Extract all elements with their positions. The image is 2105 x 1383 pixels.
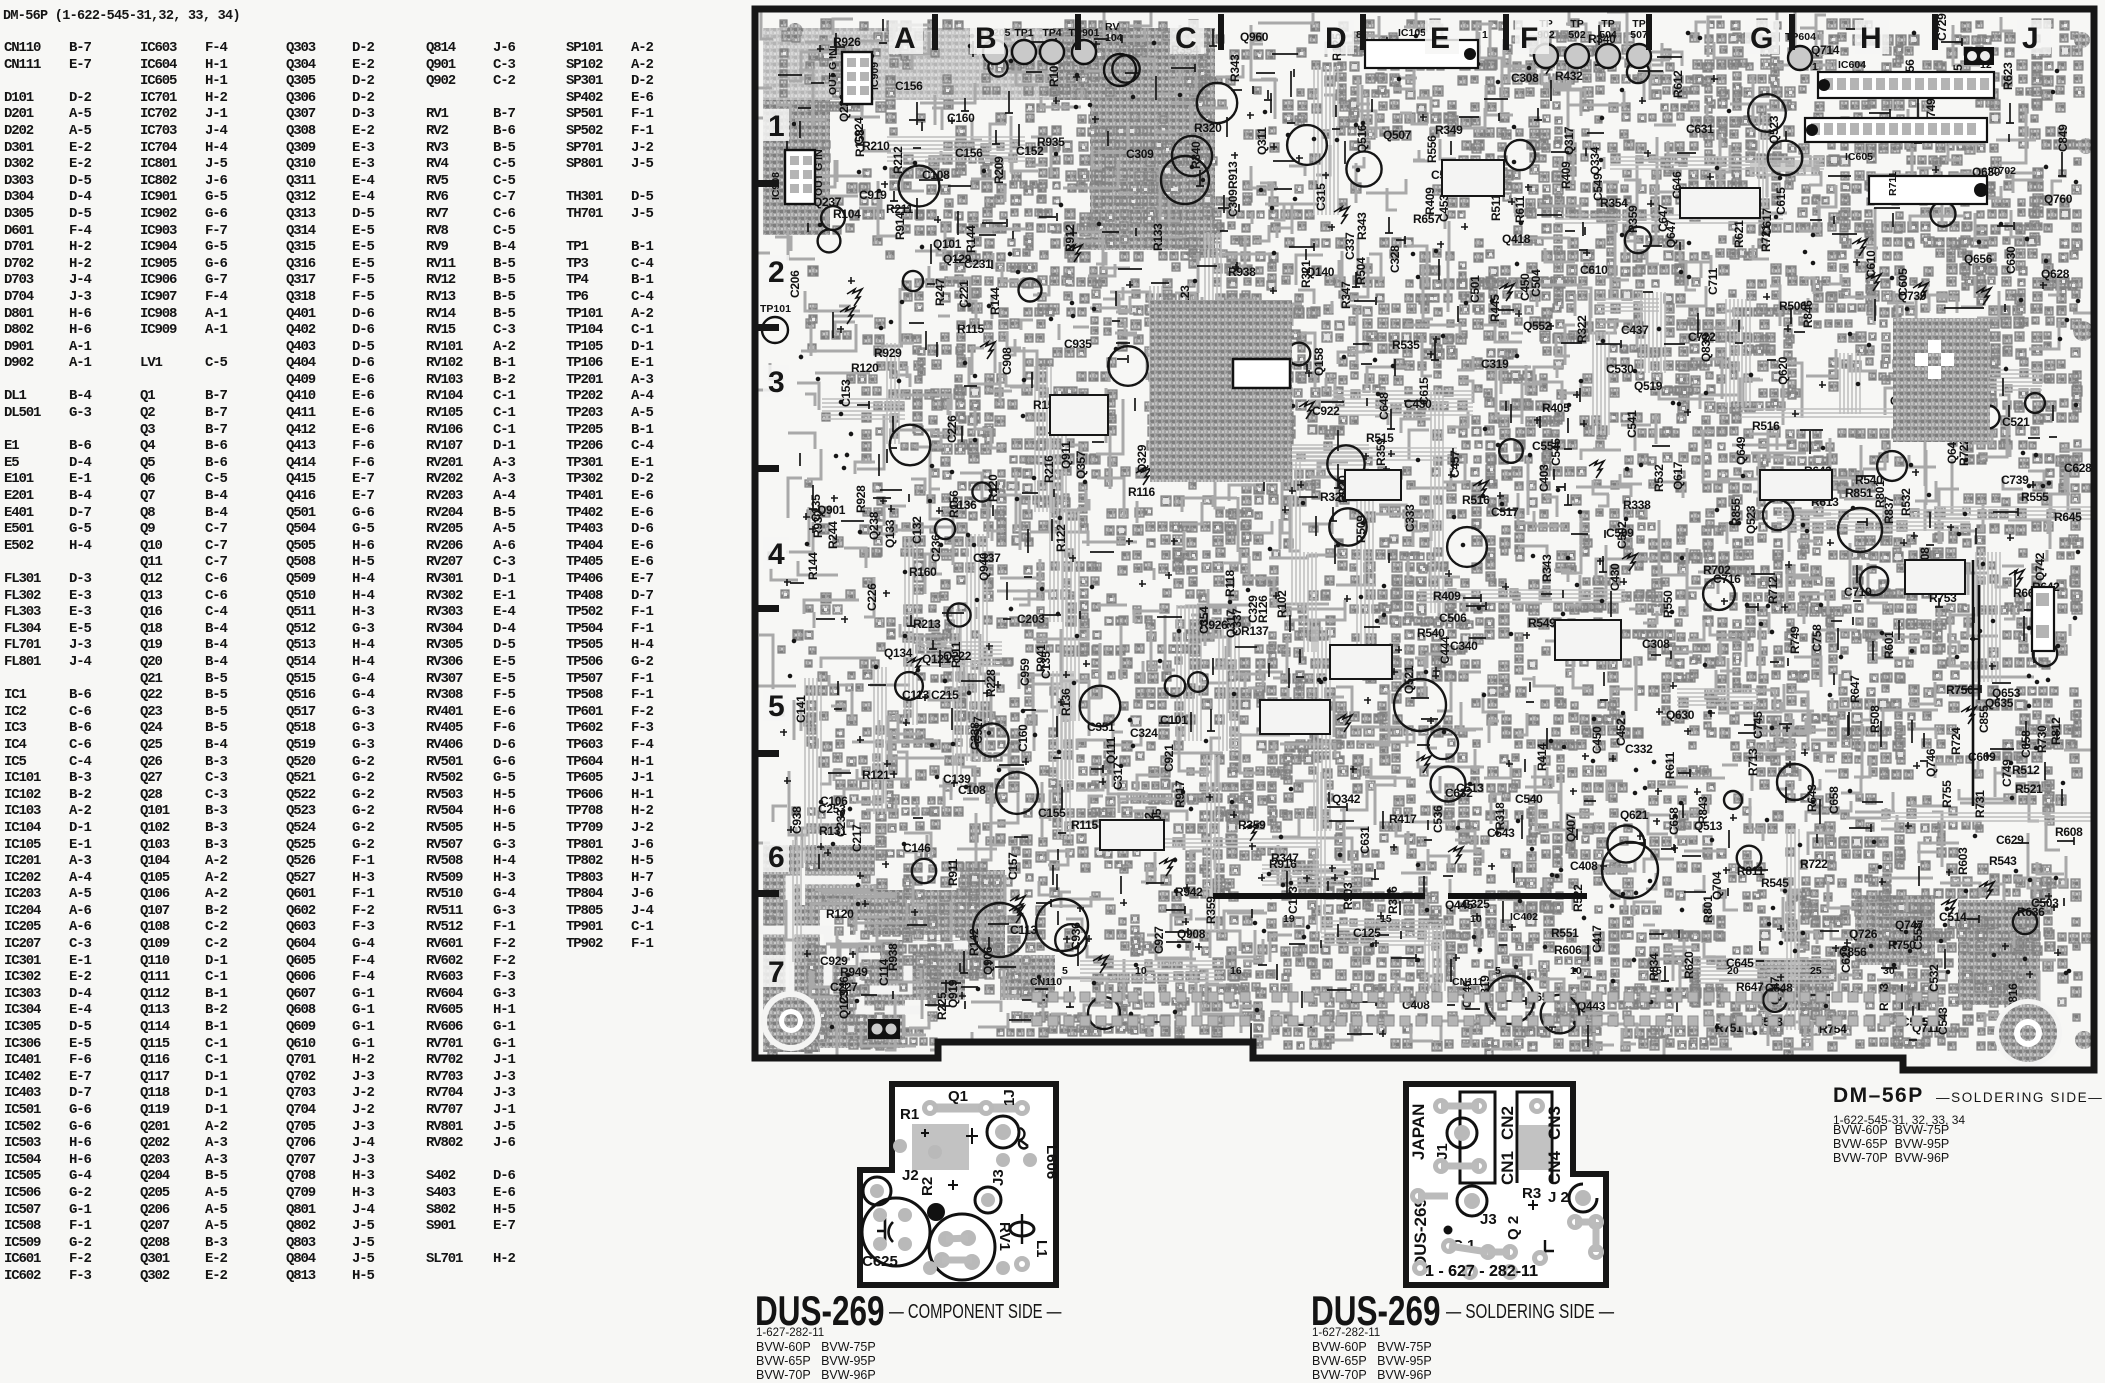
- grid label H: [1855, 20, 1889, 54]
- svg-text:C517: C517: [1491, 505, 1519, 519]
- component index column 2: designators: [140, 40, 176, 1285]
- svg-text:502: 502: [1568, 29, 1586, 41]
- transistor Q1 circle: [987, 1116, 1019, 1148]
- svg-text:R749: R749: [1788, 626, 1802, 654]
- svg-text:TP4: TP4: [1042, 27, 1061, 39]
- svg-text:R543: R543: [1989, 854, 2017, 868]
- svg-text:C855: C855: [1977, 705, 1991, 733]
- svg-text:Q906: Q906: [981, 946, 995, 975]
- potentiometer RV1: [929, 1214, 995, 1280]
- svg-text:R750: R750: [1888, 938, 1916, 952]
- svg-text:Q649: Q649: [1734, 436, 1748, 465]
- J3: [975, 1187, 1001, 1213]
- TP901: [1072, 40, 1096, 64]
- svg-text:R133: R133: [1151, 223, 1165, 251]
- svg-text:Q714: Q714: [1811, 43, 1840, 57]
- svg-text:Q133: Q133: [883, 519, 897, 548]
- svg-text:R121: R121: [862, 768, 890, 782]
- svg-text:R338: R338: [1623, 498, 1651, 512]
- TP504: [1596, 44, 1620, 68]
- svg-text:IC604: IC604: [1838, 59, 1866, 71]
- svg-text:B: B: [975, 22, 997, 55]
- svg-text:25: 25: [1810, 965, 1822, 977]
- svg-text:C132: C132: [910, 516, 924, 544]
- header part number: [3, 9, 240, 24]
- svg-text:R156: R156: [947, 490, 961, 518]
- svg-text:R636: R636: [2017, 905, 2045, 919]
- bottom-left connector: [868, 1019, 900, 1039]
- grid label E: [1425, 20, 1459, 54]
- svg-text:D: D: [1325, 22, 1347, 55]
- svg-text:R730: R730: [2035, 725, 2049, 753]
- svg-text:C628: C628: [2064, 461, 2092, 475]
- svg-text:C632: C632: [1445, 786, 1473, 800]
- svg-text:Q158: Q158: [1312, 347, 1326, 376]
- svg-text:4: 4: [768, 538, 785, 571]
- svg-text:C457: C457: [1448, 450, 1462, 478]
- svg-text:C137: C137: [973, 551, 1001, 565]
- svg-text:R120: R120: [826, 907, 854, 921]
- svg-text:C135: C135: [1039, 651, 1053, 679]
- svg-text:C333: C333: [1403, 504, 1417, 532]
- svg-text:10: 10: [1135, 965, 1147, 977]
- svg-text:C: C: [1175, 22, 1197, 55]
- svg-text:C631: C631: [1358, 826, 1372, 854]
- svg-text:R801: R801: [1701, 895, 1715, 923]
- IC702: [1869, 176, 1987, 204]
- IC105: [1365, 40, 1478, 68]
- svg-text:R722: R722: [1957, 438, 1971, 466]
- svg-text:R535: R535: [1392, 338, 1420, 352]
- svg-text:C615: C615: [1774, 187, 1788, 215]
- svg-text:R359: R359: [1238, 818, 1266, 832]
- svg-text:R120: R120: [986, 474, 1000, 502]
- svg-text:C408: C408: [1570, 859, 1598, 873]
- svg-text:C502: C502: [1615, 521, 1629, 549]
- svg-text:Q134: Q134: [884, 646, 913, 660]
- svg-text:R347: R347: [1339, 281, 1353, 309]
- svg-text:R359: R359: [1626, 205, 1640, 233]
- svg-text:R343: R343: [1228, 54, 1242, 82]
- svg-text:Q552: Q552: [1523, 319, 1552, 333]
- svg-text:C629: C629: [1839, 945, 1853, 973]
- svg-text:R949: R949: [840, 965, 868, 979]
- svg-text:R657: R657: [1413, 212, 1441, 226]
- svg-text:R928: R928: [854, 485, 868, 513]
- big gray plane near J (H4-J4): [1893, 318, 1990, 442]
- svg-text:IC909: IC909: [869, 62, 881, 90]
- svg-text:C532: C532: [1927, 964, 1941, 992]
- svg-text:6: 6: [768, 841, 785, 874]
- J2: [863, 1177, 891, 1205]
- svg-text:C160: C160: [947, 111, 975, 125]
- ground patch bottom-right: [1958, 900, 2040, 1005]
- grid label 5: [763, 689, 789, 721]
- grid label 3: [763, 365, 789, 397]
- ground plane patch upper-left: [763, 28, 1053, 100]
- svg-text:R122: R122: [1054, 524, 1068, 552]
- grid label 4: [763, 537, 789, 569]
- svg-text:OUT G IN: OUT G IN: [813, 149, 825, 196]
- svg-text:C924: C924: [852, 117, 866, 145]
- jumper Q1 trace: [930, 1104, 1022, 1113]
- svg-text:CN3: CN3: [1545, 1106, 1564, 1140]
- svg-text:C319: C319: [1481, 357, 1509, 371]
- svg-text:R620: R620: [1682, 951, 1696, 979]
- TP4: [1040, 40, 1064, 64]
- svg-text:R713: R713: [1746, 748, 1760, 776]
- svg-text:Q747: Q747: [1895, 918, 1924, 932]
- svg-text:10: 10: [1470, 913, 1482, 925]
- TP1: [1012, 40, 1036, 64]
- component index column 3: grid coordinates: [352, 40, 374, 1285]
- mounting holes: [761, 991, 821, 1051]
- svg-text:Q342: Q342: [1332, 792, 1361, 806]
- solder pad field: [764, 19, 2092, 1059]
- svg-text:R104: R104: [833, 207, 861, 221]
- svg-text:R603: R603: [1956, 847, 1970, 875]
- svg-text:Q621: Q621: [1620, 808, 1649, 822]
- svg-text:C153: C153: [839, 379, 853, 407]
- svg-text:R724: R724: [1949, 727, 1963, 755]
- pad rings: [770, 33, 2079, 1055]
- svg-text:R144: R144: [964, 225, 978, 253]
- svg-text:R612: R612: [1671, 70, 1685, 98]
- svg-text:R938: R938: [1228, 265, 1256, 279]
- svg-text:J 2: J 2: [1548, 1189, 1569, 1206]
- svg-text:R549: R549: [1528, 616, 1556, 630]
- svg-text:Q311: Q311: [1255, 127, 1269, 155]
- svg-text:R509: R509: [1354, 515, 1368, 543]
- svg-text:G: G: [1750, 22, 1773, 55]
- svg-text:C139: C139: [943, 772, 971, 786]
- svg-text:C125: C125: [1353, 926, 1381, 940]
- svg-text:R711: R711: [1887, 171, 1899, 196]
- svg-text:E: E: [1430, 22, 1450, 55]
- svg-text:C309: C309: [1226, 189, 1240, 217]
- svg-text:R608: R608: [2055, 825, 2083, 839]
- svg-text:15: 15: [1650, 965, 1662, 977]
- svg-text:R211: R211: [886, 202, 913, 216]
- svg-text:C917: C917: [971, 716, 985, 744]
- component reference labels: [788, 13, 2092, 1036]
- svg-text:Q121: Q121: [922, 652, 951, 666]
- svg-text:TP101: TP101: [760, 303, 791, 315]
- svg-text:10: 10: [1570, 965, 1582, 977]
- svg-text:R2: R2: [919, 1177, 936, 1196]
- svg-text:Q620: Q620: [1776, 356, 1790, 385]
- svg-text:CN110: CN110: [1030, 976, 1062, 988]
- svg-text:C935: C935: [1064, 337, 1092, 351]
- svg-text:R359: R359: [1374, 438, 1388, 466]
- svg-text:R359: R359: [1204, 896, 1218, 924]
- component index column 5: grid coordinates: [631, 40, 653, 1285]
- svg-text:C919: C919: [859, 188, 887, 202]
- svg-text:C959: C959: [1018, 658, 1032, 686]
- svg-text:504: 504: [1599, 29, 1617, 41]
- svg-text:C739: C739: [2001, 473, 2029, 487]
- svg-text:C308: C308: [1511, 71, 1539, 85]
- FL801: [2032, 587, 2054, 651]
- svg-text:Q516: Q516: [1355, 124, 1369, 153]
- svg-text:R343: R343: [1540, 554, 1554, 582]
- svg-text:R216: R216: [1042, 455, 1056, 483]
- via/junction dots: [788, 31, 2081, 1039]
- svg-text:C317: C317: [1111, 762, 1125, 790]
- svg-text:IC702: IC702: [1988, 165, 2016, 177]
- svg-text:C629: C629: [1996, 833, 2024, 847]
- component index column 3: designators: [286, 40, 315, 1285]
- svg-text:C221: C221: [957, 280, 971, 308]
- svg-text:C540: C540: [1515, 792, 1543, 806]
- svg-text:J1: J1: [1434, 1143, 1451, 1160]
- svg-text:Q418: Q418: [1502, 232, 1531, 246]
- board outline: [755, 9, 2094, 1070]
- component index column 4: grid coordinates: [493, 40, 515, 1285]
- RV104: [1104, 54, 1136, 86]
- svg-text:C615: C615: [1417, 377, 1431, 405]
- svg-text:16: 16: [1230, 965, 1242, 977]
- svg-text:C329: C329: [1246, 595, 1260, 623]
- svg-text:R516: R516: [1462, 493, 1490, 507]
- svg-text:Q919: Q919: [946, 979, 960, 1008]
- svg-text:R929: R929: [874, 346, 902, 360]
- svg-text:C437: C437: [1621, 323, 1649, 337]
- svg-text:Q628: Q628: [2041, 267, 2070, 281]
- svg-text:C217: C217: [850, 824, 864, 852]
- svg-text:R322: R322: [1575, 315, 1589, 343]
- svg-text:Q519: Q519: [1634, 379, 1663, 393]
- grid label 2: [763, 255, 789, 287]
- svg-text:C430: C430: [1608, 563, 1622, 591]
- svg-text:R320: R320: [1194, 121, 1222, 135]
- svg-text:R540: R540: [1417, 626, 1445, 640]
- svg-text:R144: R144: [806, 552, 820, 580]
- svg-text:R508: R508: [1868, 705, 1882, 733]
- svg-text:R209: R209: [992, 156, 1006, 184]
- svg-text:C849: C849: [2056, 124, 2070, 152]
- svg-text:Q123: Q123: [837, 990, 851, 1019]
- svg-text:R3: R3: [1522, 1185, 1541, 1202]
- svg-text:C146: C146: [903, 841, 931, 855]
- TP604: [1788, 46, 1812, 70]
- svg-text:Q407: Q407: [1564, 813, 1578, 842]
- svg-text:R601: R601: [1882, 631, 1896, 659]
- svg-text:R935: R935: [1037, 135, 1065, 149]
- svg-text:R160: R160: [909, 565, 937, 579]
- svg-text:C610: C610: [1580, 263, 1608, 277]
- svg-text:C155: C155: [1038, 806, 1066, 820]
- svg-text:R228: R228: [984, 669, 998, 697]
- svg-text:Q742: Q742: [2033, 552, 2047, 581]
- svg-text:C108: C108: [922, 168, 950, 182]
- svg-text:Q630: Q630: [1666, 708, 1695, 722]
- svg-text:CN1: CN1: [1498, 1151, 1517, 1185]
- capacitor C1: [1444, 1226, 1453, 1235]
- grid label 1: [763, 109, 789, 141]
- IC909 box: [842, 52, 872, 104]
- svg-text:Q317: Q317: [1562, 126, 1576, 155]
- svg-text:1: 1: [1812, 61, 1818, 73]
- svg-text:C514: C514: [1939, 910, 1967, 924]
- svg-text:IC402: IC402: [1510, 911, 1538, 923]
- svg-text:C337: C337: [1343, 232, 1357, 260]
- svg-text:C521: C521: [2002, 415, 2030, 429]
- svg-text:R512: R512: [2012, 763, 2040, 777]
- svg-text:Q908: Q908: [1177, 927, 1206, 941]
- svg-text:R343: R343: [1355, 212, 1369, 240]
- svg-text:R213: R213: [913, 617, 941, 631]
- svg-text:C908: C908: [1000, 347, 1014, 375]
- component index column 2: grid coordinates: [205, 40, 227, 1285]
- svg-text:Q357: Q357: [1074, 450, 1088, 479]
- svg-text:C103: C103: [1286, 886, 1300, 914]
- svg-text:R432: R432: [1555, 69, 1583, 83]
- svg-text:C647: C647: [1656, 204, 1670, 232]
- svg-text:7: 7: [768, 956, 785, 989]
- svg-text:R545: R545: [1761, 876, 1789, 890]
- svg-text:C605: C605: [1896, 268, 1910, 296]
- svg-text:R621: R621: [1732, 220, 1746, 248]
- svg-text:R118: R118: [1223, 570, 1237, 597]
- svg-text:R414: R414: [1535, 743, 1549, 771]
- svg-text:C226: C226: [945, 415, 959, 443]
- svg-text:Q317: Q317: [1224, 609, 1238, 638]
- svg-text:Q513: Q513: [1694, 819, 1723, 833]
- svg-text:C711: C711: [1706, 268, 1720, 295]
- svg-text:5: 5: [768, 690, 785, 723]
- svg-text:R550: R550: [1661, 590, 1675, 618]
- trimmer wiper marks: [840, 57, 2024, 973]
- IC605 strip: [1805, 118, 1987, 142]
- svg-text:Q101: Q101: [933, 237, 962, 251]
- svg-text:Q1: Q1: [948, 1088, 968, 1105]
- svg-text:J2: J2: [902, 1167, 919, 1184]
- svg-text:2: 2: [768, 256, 785, 289]
- svg-text:L1: L1: [1033, 1240, 1050, 1258]
- svg-text:R326: R326: [1320, 490, 1348, 504]
- svg-text:R721: R721: [1759, 224, 1773, 252]
- IC908 box: [785, 150, 815, 204]
- svg-text:C536: C536: [1431, 805, 1445, 833]
- svg-text:R556: R556: [1425, 135, 1439, 163]
- svg-text:C501: C501: [1468, 275, 1482, 303]
- svg-text:DUS-269: DUS-269: [1411, 1198, 1430, 1268]
- svg-text:C631: C631: [1686, 122, 1714, 136]
- svg-text:R755: R755: [1940, 780, 1954, 808]
- svg-text:5: 5: [1062, 965, 1068, 977]
- svg-text:R142: R142: [967, 928, 981, 956]
- TP205: [983, 40, 1007, 64]
- svg-text:C227: C227: [830, 980, 858, 994]
- svg-text:Q445: Q445: [1445, 898, 1474, 912]
- svg-text:C156: C156: [895, 79, 923, 93]
- white component boxes: [1330, 645, 1392, 679]
- svg-text:OUT G IN: OUT G IN: [827, 48, 839, 95]
- CN1 connector outline: [1460, 1092, 1495, 1183]
- svg-text:C554: C554: [1532, 439, 1560, 453]
- grid label G: [1745, 20, 1779, 54]
- svg-text:R506: R506: [1779, 299, 1807, 313]
- svg-text:C113: C113: [1010, 923, 1037, 937]
- svg-text:R643: R643: [1805, 784, 1819, 812]
- svg-text:R120: R120: [851, 361, 879, 375]
- svg-text:Q760: Q760: [2044, 192, 2073, 206]
- svg-text:C758: C758: [1810, 624, 1824, 652]
- svg-text:C922: C922: [1312, 404, 1340, 418]
- svg-text:C157: C157: [1006, 852, 1020, 880]
- svg-text:C351: C351: [1087, 720, 1115, 734]
- svg-text:R340: R340: [1189, 141, 1203, 169]
- svg-text:R347: R347: [1271, 851, 1299, 865]
- svg-text:C403: C403: [1537, 464, 1551, 492]
- svg-text:C927: C927: [1152, 926, 1166, 954]
- TP502: [1565, 44, 1589, 68]
- DUS-269 component side caption: [755, 1287, 885, 1335]
- grid label A: [889, 20, 923, 54]
- svg-text:R244: R244: [826, 521, 840, 549]
- svg-text:C444: C444: [1438, 636, 1452, 664]
- svg-text:R247: R247: [933, 278, 947, 306]
- svg-text:R321: R321: [1299, 260, 1313, 288]
- svg-text:R516: R516: [1752, 419, 1780, 433]
- svg-text:C630: C630: [2004, 246, 2018, 274]
- svg-text:19: 19: [1283, 913, 1295, 925]
- svg-text:J3: J3: [1480, 1211, 1497, 1228]
- wire trace network: [715, 4, 2105, 1094]
- svg-text:C215: C215: [931, 688, 959, 702]
- svg-text:C543: C543: [1487, 826, 1515, 840]
- IC604: [1818, 72, 1994, 98]
- svg-text:CN2: CN2: [1498, 1106, 1517, 1140]
- top-right connector: [1964, 47, 1994, 65]
- big gray plane D3-D4: [1150, 300, 1292, 482]
- svg-text:R926: R926: [833, 35, 861, 49]
- svg-text:C541: C541: [1625, 410, 1639, 438]
- svg-text:1 - 627 - 282-11: 1 - 627 - 282-11: [1425, 1263, 1538, 1280]
- svg-text:Q507: Q507: [1383, 128, 1412, 142]
- svg-text:Q523: Q523: [1744, 505, 1758, 534]
- svg-text:Q656: Q656: [1964, 252, 1993, 266]
- svg-text:C648: C648: [1377, 392, 1391, 420]
- svg-text:CN4: CN4: [1545, 1150, 1564, 1185]
- grid label D: [1320, 20, 1354, 54]
- svg-text:Q329: Q329: [1135, 444, 1149, 473]
- grid label C: [1170, 20, 1204, 54]
- svg-text:R942: R942: [1175, 885, 1203, 899]
- svg-text:R532: R532: [1652, 464, 1666, 492]
- svg-text:R115: R115: [1071, 818, 1098, 832]
- svg-text:R504: R504: [1354, 257, 1368, 285]
- svg-text:R750: R750: [1946, 683, 1974, 697]
- svg-text:C658: C658: [2019, 730, 2033, 758]
- svg-text:R911: R911: [946, 859, 960, 886]
- svg-text:R611: R611: [1663, 752, 1677, 779]
- svg-text:15: 15: [1380, 913, 1392, 925]
- jumper J3: [1457, 1186, 1487, 1216]
- svg-text:IC105: IC105: [1398, 27, 1426, 39]
- svg-text:C236: C236: [929, 534, 943, 562]
- svg-text:R356: R356: [1386, 886, 1400, 914]
- svg-text:C114: C114: [877, 959, 891, 986]
- grid label B: [970, 20, 1004, 54]
- svg-text:C921: C921: [1162, 744, 1176, 772]
- svg-text:R1: R1: [900, 1106, 919, 1123]
- svg-text:R555: R555: [2021, 490, 2049, 504]
- svg-text:104: 104: [1105, 32, 1123, 44]
- inductor L1: [1010, 1222, 1034, 1236]
- svg-text:C253: C253: [818, 802, 846, 816]
